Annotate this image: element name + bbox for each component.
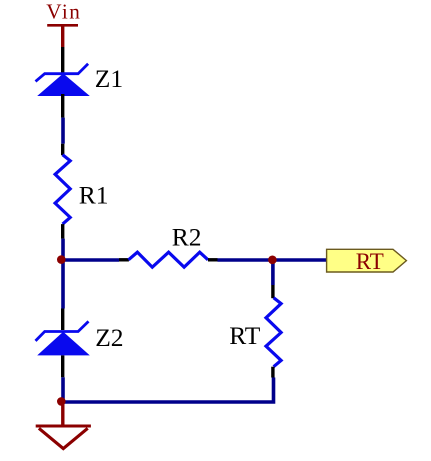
pin RT bottom [271,367,274,378]
pin R1 top [61,144,64,156]
svg-text:Z1: Z1 [95,64,123,93]
designator R2 [172,222,202,251]
designator Z2 [95,323,123,352]
resistor R1 [55,155,70,224]
designator RT [229,321,260,350]
wire Z1 to R1 [61,118,65,144]
pin R2 left [119,258,129,261]
svg-text:R2: R2 [172,222,202,251]
zener diode Z1 [36,64,90,96]
pin R2 right [208,258,218,261]
port label RT [356,249,384,274]
svg-text:R1: R1 [79,181,109,210]
designator Z1 [95,64,123,93]
svg-text:RT: RT [229,321,260,350]
ground symbol [36,401,91,448]
pin RT top [271,285,274,298]
junction node B [268,255,277,264]
junction node A [57,255,66,264]
wire node A to Z2 [61,260,65,309]
svg-text:RT: RT [356,249,384,274]
svg-text:Z2: Z2 [95,323,123,352]
wire R2 to node B [218,258,273,262]
junction ground node [57,397,66,406]
pin Z1 cathode [61,47,64,73]
wire node B to port RT [273,258,327,262]
resistor R2 [129,252,209,267]
net label Vin [46,0,81,24]
port RT [327,249,407,272]
wire node B to RT resistor [271,260,275,285]
pin Z2 anode [61,355,64,377]
zener diode Z2 [36,321,90,355]
resistor RT [266,298,281,367]
power symbol Vin [47,25,78,47]
pin R1 bottom [61,224,64,239]
wire ground node to RT bottom [62,378,274,403]
wire node A to R2 [63,258,119,262]
designator R1 [79,181,109,210]
pin Z1 anode [61,94,64,118]
pin Z2 cathode [61,309,64,331]
wire Z2 to ground node [61,377,65,402]
wire R1 to node A [61,239,65,260]
svg-text:Vin: Vin [46,0,81,24]
